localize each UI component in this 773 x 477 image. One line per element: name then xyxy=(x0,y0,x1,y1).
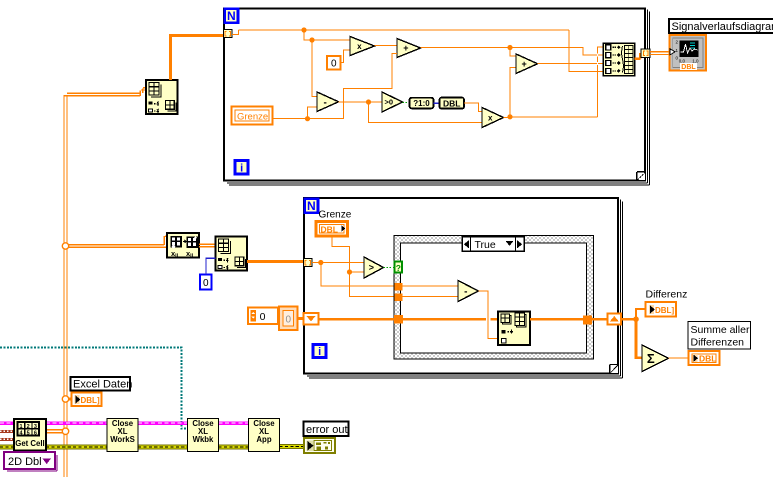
svg-text:DBL: DBL xyxy=(443,98,460,108)
wire: multiply2 out to dot5 xyxy=(504,117,511,119)
node: Greater? comparison xyxy=(364,257,384,278)
wire: blue const to node2 index input xyxy=(206,258,216,274)
node: Build Array (4 inputs) xyxy=(603,43,635,76)
wire: dot3 up to subtract1 bottom input xyxy=(308,107,318,119)
svg-text:1,0: 1,0 xyxy=(692,58,699,63)
indicator: Signalverlaufsdiagramm waveform chart terminal xyxy=(670,35,707,71)
label: loop1 N count box xyxy=(225,9,238,23)
svg-text:x: x xyxy=(488,113,493,122)
indicator: Differenz DBL xyxy=(646,302,677,317)
wire: thick array wire through case (SR to node3) xyxy=(319,318,394,321)
svg-text:N: N xyxy=(227,9,236,23)
wire: teal VARIANT wire from left to Close XL Wkbk xyxy=(0,348,188,429)
structure: For loop 1 border xyxy=(224,9,650,186)
wire: boolean to case selector (green dotted) xyxy=(384,267,395,269)
node: matrix size Xij node xyxy=(167,233,199,259)
wire: stub to Excel Daten indicator xyxy=(69,398,72,401)
wire: error cluster wire segments xyxy=(0,444,304,449)
svg-text:x: x xyxy=(357,42,362,51)
tunnel: loop1 right auto-index tunnel [] xyxy=(641,49,650,58)
node: Close XL Workbook xyxy=(188,419,219,452)
node: subtract1 xyxy=(317,92,339,112)
svg-text:WorkS: WorkS xyxy=(110,435,135,444)
shift register: right (up arrow) xyxy=(608,314,622,325)
svg-text:Wkbk: Wkbk xyxy=(193,435,214,444)
junction dot4 xyxy=(366,99,371,104)
node: summation sigma xyxy=(642,345,669,372)
node: add1 xyxy=(397,39,421,58)
ornament: loop1 folded corner xyxy=(637,172,645,180)
svg-text:DBL: DBL xyxy=(681,64,696,71)
node: add2 xyxy=(516,54,538,74)
wire: dot4 down to multiply2 bottom input xyxy=(369,102,483,122)
svg-text:Differenz: Differenz xyxy=(646,288,688,300)
wire: DBL out to multiply2 top input xyxy=(464,103,482,111)
junction: white circle at Excel Daten xyxy=(62,396,68,402)
wire: tunnel B to case subtract bottom xyxy=(403,296,459,298)
node: Index Array 2 xyxy=(216,237,248,271)
junction dot8 xyxy=(347,269,352,274)
wire: Get Cell 2D output to junction xyxy=(46,430,64,433)
svg-text:5: 5 xyxy=(27,431,30,437)
wire: array const to left shift register xyxy=(298,317,304,320)
wire: 2D array branch to matrix node (node1) xyxy=(64,236,167,247)
svg-text:0: 0 xyxy=(260,311,266,323)
wire: dot8 to greater-than bottom input xyxy=(350,271,365,273)
node: Close XL App xyxy=(249,419,280,452)
wire: loop2 tunnel to dot7 to greater-than top input xyxy=(312,262,364,264)
junction dot7 xyxy=(318,260,323,265)
wire: dot9 up to Differenz indicator xyxy=(636,309,645,319)
tunnel: loop2 left auto-index tunnel [] xyxy=(304,259,313,267)
wire: right SR to dot9 xyxy=(621,318,636,321)
wire: dot5 right then up to build-array row1 xyxy=(510,47,603,117)
tunnel: case selector ? (green) xyxy=(395,262,403,273)
svg-text:2: 2 xyxy=(27,424,30,430)
wire: blue I32 wire select to DBL conversion xyxy=(434,102,440,104)
selector: case label True xyxy=(462,237,524,252)
junction dot1 on rail xyxy=(301,27,306,32)
node: Replace Array Subset (case) xyxy=(498,312,530,346)
node: multiply x1 xyxy=(350,37,375,56)
wire: node2 output thick 1D to loop2 tunnel xyxy=(247,260,304,263)
wire: magenta app refnum wire segments xyxy=(0,421,249,425)
wire: tunnel out stepping to top rail y=30 xyxy=(232,30,239,35)
junction dot6 xyxy=(507,45,512,50)
ornament: loop2 folded corner xyxy=(610,365,618,373)
label: loop2 N count box xyxy=(305,199,318,213)
tunnel: loop1 left auto-index tunnel [] xyxy=(224,30,233,38)
tunnel: case input B xyxy=(395,293,403,301)
wire: Excel Range refnum brown dotted wires xyxy=(0,430,14,433)
node: Index Array (top-left, extracts row) xyxy=(146,80,178,114)
wire: top rail y=30 to x=569 xyxy=(239,29,570,31)
svg-text:error out: error out xyxy=(306,424,348,436)
svg-text:Excel Daten: Excel Daten xyxy=(73,379,132,391)
label: Signalverlaufsdiagramm xyxy=(669,19,773,33)
wire: Grenze down to dot8 and comparison xyxy=(332,236,350,272)
svg-text:3: 3 xyxy=(34,424,37,430)
svg-text:1: 1 xyxy=(19,424,22,430)
svg-text:Signalverlaufsdiagramm: Signalverlaufsdiagramm xyxy=(672,21,773,33)
node: Greater Than 0? xyxy=(382,92,403,112)
svg-text:0,0: 0,0 xyxy=(679,58,686,63)
wire: multiply1 out to add1 top input xyxy=(375,45,398,47)
svg-text:Σ: Σ xyxy=(647,351,655,366)
wire: node1 to node2 2D wire xyxy=(199,244,216,247)
svg-text:2D Dbl: 2D Dbl xyxy=(8,456,42,468)
svg-text:-: - xyxy=(464,287,467,298)
indicator: Summe aller Differenzen DBL xyxy=(689,351,720,365)
node: select ?1:0 xyxy=(410,98,434,109)
junction dot2 xyxy=(309,37,314,42)
junction dot3 xyxy=(305,116,310,121)
label: loop1 iteration i box xyxy=(235,161,248,175)
structure: For loop 2 border xyxy=(304,198,623,378)
label: Excel Daten xyxy=(71,377,133,391)
svg-text:DBL]: DBL] xyxy=(81,396,100,405)
svg-text:Get Cell: Get Cell xyxy=(15,439,44,448)
node: multiply2 xyxy=(482,108,504,128)
wire: tunnel A to case subtract top xyxy=(403,285,459,287)
svg-text:i: i xyxy=(318,346,321,358)
wire: 2D DBL array main vertical from Get Cell up left side xyxy=(64,88,146,477)
node: To Double Precision DBL xyxy=(440,98,465,109)
svg-text:+: + xyxy=(403,43,408,53)
svg-text:App: App xyxy=(256,435,271,444)
wire: boolean green dotted to select xyxy=(403,102,410,104)
constant: numeric 0 (blue) xyxy=(200,275,212,290)
node: subtract (case) xyxy=(458,281,479,302)
wire: dot5 up to add2 bottom input xyxy=(510,68,516,117)
svg-text:DBL: DBL xyxy=(699,354,716,364)
structure: case structure border (checkered) xyxy=(394,236,594,360)
svg-text:DBL: DBL xyxy=(321,224,338,234)
indicator: Excel Daten [DBL] array xyxy=(72,393,102,407)
svg-text:i: i xyxy=(240,163,243,175)
svg-text:?1:0: ?1:0 xyxy=(413,99,430,108)
svg-text:6: 6 xyxy=(34,431,37,437)
svg-text:>: > xyxy=(369,263,374,273)
wire: dot9 down to sum node xyxy=(636,319,642,358)
svg-text:DBL]: DBL] xyxy=(655,306,674,315)
svg-text:True: True xyxy=(475,239,496,251)
constant: numeric 0 (orange) xyxy=(327,56,341,70)
tunnel: case output D xyxy=(583,315,592,324)
junction dot5 xyxy=(507,114,512,119)
wire: sigma out to Summe indicator xyxy=(669,357,689,359)
node: Get Cell xyxy=(14,419,46,451)
junction: white circle on main wire at node1 branch xyxy=(62,243,68,249)
wire: subtract1 out to dot4 and GreaterThan0 xyxy=(339,101,383,103)
svg-text:+: + xyxy=(522,59,527,69)
wire: dot8 down to case tunnel B xyxy=(350,272,395,297)
node: Close XL WorkSheet xyxy=(107,419,138,452)
wire: orange vertical redrawn over teal crossing xyxy=(64,345,67,352)
wire: rail down to build-array row4 xyxy=(569,30,603,72)
wire: add2 out to build-array row3 xyxy=(538,63,604,65)
wire: dot1 down-step to dot2 xyxy=(304,30,312,40)
svg-text:0: 0 xyxy=(331,59,337,70)
shift register: left (down arrow) xyxy=(304,313,319,325)
label: loop2 iteration i box xyxy=(313,345,326,359)
wire: dot2 down to subtract1 top input xyxy=(312,40,317,97)
wire crossing gaps on build-array feed vertical xyxy=(597,54,599,65)
wire: tunnel D to right shift register xyxy=(592,318,607,321)
indicator: error out cluster xyxy=(304,438,335,453)
svg-text:>0: >0 xyxy=(384,98,393,107)
tunnel: case input A xyxy=(395,283,403,291)
constant: array of DBL init 0 xyxy=(248,308,278,325)
label: Summe aller Differenzen xyxy=(688,322,751,350)
svg-text:Grenze: Grenze xyxy=(237,111,268,122)
label: error out xyxy=(304,422,349,437)
wire: dot3 long path to add1 bottom input xyxy=(308,53,398,118)
svg-text:?: ? xyxy=(396,263,401,273)
wire: dot6 down to add2 top input xyxy=(510,48,516,57)
junction dot9 xyxy=(633,316,639,322)
wire: add1 out to dot6 then build-array row2 xyxy=(421,48,604,56)
constant: 2D Dbl ring selector xyxy=(4,452,57,471)
wire: node3 out to tunnel D xyxy=(530,318,583,321)
svg-text:0: 0 xyxy=(286,315,292,326)
wire: index array output up to loop1 tunnel (1D array) xyxy=(171,36,224,81)
wire: dot7 down to case tunnel A xyxy=(321,263,395,286)
svg-text:Grenze: Grenze xyxy=(319,209,352,220)
wire: build array out to loop1 right tunnel (thick) xyxy=(635,53,641,59)
svg-text:N: N xyxy=(307,199,316,213)
wire: Grenze out to dot3 xyxy=(273,118,308,120)
svg-text:-: - xyxy=(323,97,326,108)
svg-text:Differenzen: Differenzen xyxy=(691,337,745,349)
wire: 1D array double wire to chart terminal xyxy=(650,52,670,55)
control: Grenze DBL terminal (loop2) xyxy=(316,222,348,237)
control: Grenze (loop1, labeled box) xyxy=(232,107,273,125)
svg-text:Summe aller: Summe aller xyxy=(691,324,750,336)
wire: dot2 to multiply1 top input xyxy=(312,39,350,41)
tunnel: case input C (array through) xyxy=(394,315,403,324)
svg-text:0: 0 xyxy=(203,278,209,289)
wire: 0 const to multiply1 bottom input xyxy=(341,50,350,63)
wire: case subtract out down to replace-element node xyxy=(479,291,499,339)
